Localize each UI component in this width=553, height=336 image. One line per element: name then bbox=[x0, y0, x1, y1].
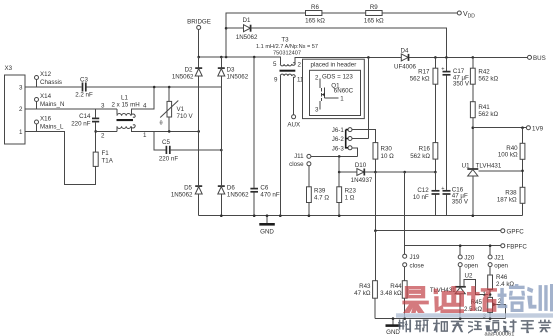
capacitor C14 bbox=[71, 109, 99, 131]
svg-text:D6: D6 bbox=[227, 184, 235, 191]
resistor R40 bbox=[498, 128, 525, 188]
terminal VDD bbox=[457, 11, 475, 19]
svg-text:Chassis: Chassis bbox=[40, 79, 62, 86]
svg-text:D5: D5 bbox=[184, 184, 192, 191]
svg-text:562 kΩ: 562 kΩ bbox=[478, 111, 498, 118]
svg-text:1N5062: 1N5062 bbox=[236, 34, 258, 41]
header box outer (placed in header) bbox=[303, 59, 365, 118]
svg-text:X12: X12 bbox=[40, 71, 52, 78]
resistor R39 bbox=[307, 166, 330, 216]
node D1 anode bbox=[225, 27, 228, 30]
resistor R46 bbox=[488, 266, 515, 297]
resistor R17 bbox=[410, 57, 438, 142]
diode D10 bbox=[339, 162, 435, 184]
svg-text:2: 2 bbox=[298, 61, 302, 68]
node C6 on bus bbox=[253, 56, 256, 59]
svg-text:562 kΩ: 562 kΩ bbox=[410, 153, 430, 160]
svg-text:D2: D2 bbox=[185, 66, 193, 73]
svg-text:GDS = 123: GDS = 123 bbox=[322, 74, 353, 81]
node R45 bottom on bus bbox=[489, 317, 492, 320]
resistor R30 bbox=[373, 143, 394, 172]
node U2 ref at R46/R45 junction bbox=[489, 293, 492, 296]
svg-text:X14: X14 bbox=[40, 93, 52, 100]
svg-text:D10: D10 bbox=[355, 162, 367, 169]
wire R30 vertical through gnd to GPFC bbox=[374, 172, 376, 231]
wire T3 pin11 to AUX bbox=[293, 77, 295, 115]
svg-text:J11: J11 bbox=[294, 153, 304, 160]
wire VDD riser bbox=[226, 13, 457, 57]
svg-text:1: 1 bbox=[340, 96, 344, 103]
svg-text:GND: GND bbox=[386, 329, 400, 336]
svg-text:R42: R42 bbox=[478, 68, 490, 75]
node U2 anode on bottom bus bbox=[459, 317, 462, 320]
wire pin1 row (Mains_L) bbox=[25, 131, 96, 184]
wire J11 top to J6-3 bbox=[311, 155, 357, 157]
inductor L1 (common mode choke) bbox=[101, 87, 199, 140]
node D6 on gnd bus bbox=[220, 214, 223, 217]
capacitor C17 bbox=[441, 57, 470, 190]
diode D6 bbox=[218, 150, 249, 216]
svg-text:165 kΩ: 165 kΩ bbox=[305, 17, 325, 24]
wire bottom bus bbox=[375, 318, 505, 320]
node D10 row left bbox=[338, 171, 341, 174]
op-amp U1 (TLVH431 shunt regulator) bbox=[462, 163, 523, 216]
diode D5 bbox=[171, 131, 202, 215]
svg-text:4: 4 bbox=[143, 103, 147, 110]
svg-text:2: 2 bbox=[315, 74, 319, 81]
svg-text:220 nF: 220 nF bbox=[159, 156, 178, 163]
svg-text:T3: T3 bbox=[281, 37, 289, 44]
svg-text:GPFC: GPFC bbox=[507, 229, 525, 236]
svg-text:R43: R43 bbox=[359, 283, 371, 290]
node U1 ref at R38 bbox=[521, 170, 524, 173]
svg-text:R6: R6 bbox=[311, 4, 319, 11]
wire pin3 row (chassis) bbox=[25, 86, 82, 88]
svg-text:C5: C5 bbox=[162, 139, 170, 146]
jumper J11 bbox=[289, 153, 311, 168]
svg-text:R41: R41 bbox=[478, 104, 490, 111]
svg-text:X3: X3 bbox=[5, 65, 13, 72]
svg-text:187 kΩ: 187 kΩ bbox=[497, 196, 517, 203]
svg-text:3: 3 bbox=[19, 85, 23, 92]
svg-text:R9: R9 bbox=[370, 4, 378, 11]
svg-text:10 Ω: 10 Ω bbox=[381, 153, 395, 160]
node R17 on bus bbox=[434, 56, 437, 59]
svg-text:open: open bbox=[494, 262, 508, 269]
terminal BUS bbox=[528, 55, 546, 62]
node GPFC corner bbox=[374, 229, 377, 232]
capacitor C16 bbox=[441, 186, 469, 216]
svg-text:J6-1: J6-1 bbox=[332, 127, 345, 134]
jumper J6-3 bbox=[332, 145, 358, 156]
node C6 on gnd bus bbox=[253, 214, 256, 217]
node C5 right at D3 vertical bbox=[220, 149, 223, 152]
terminal BRIDGE bbox=[187, 19, 211, 58]
node R39 on gnd bus bbox=[308, 214, 311, 217]
wire GPFC row bbox=[375, 230, 500, 232]
terminal GPFC bbox=[501, 229, 524, 236]
svg-text:aaa-000061: aaa-000061 bbox=[485, 332, 515, 336]
svg-text:2: 2 bbox=[101, 133, 105, 140]
node R42 on bus bbox=[472, 56, 475, 59]
node J21 on FBPFC row bbox=[489, 244, 492, 247]
node U1 anode on gnd bus bbox=[472, 214, 475, 217]
node R16 bottom on D10 row bbox=[434, 171, 437, 174]
svg-text:2.2 nF: 2.2 nF bbox=[75, 92, 93, 99]
transistor Q1 bbox=[315, 74, 354, 114]
resistor R38 bbox=[497, 187, 525, 215]
svg-text:1 Ω: 1 Ω bbox=[345, 195, 355, 202]
watermark dark text line bbox=[398, 320, 551, 334]
node R44 on bottom bus bbox=[403, 317, 406, 320]
svg-text:1N5062: 1N5062 bbox=[227, 74, 249, 81]
svg-text:D3: D3 bbox=[227, 66, 235, 73]
svg-text:D4: D4 bbox=[401, 47, 409, 54]
svg-text:GND: GND bbox=[260, 229, 274, 236]
resistor R43 bbox=[354, 231, 377, 319]
node R23 on gnd bus bbox=[338, 214, 341, 217]
node J6 riser on bus bbox=[367, 56, 370, 59]
wire pin2 row (Mains_N) bbox=[25, 108, 117, 110]
node T3 pin9 on gnd bus bbox=[279, 214, 282, 217]
wire J19 riser through gnd to FBPFC bbox=[404, 172, 406, 254]
svg-text:J21: J21 bbox=[494, 255, 505, 262]
svg-text:R44: R44 bbox=[390, 283, 402, 290]
svg-text:9: 9 bbox=[274, 77, 278, 84]
svg-text:J6-2: J6-2 bbox=[332, 136, 345, 143]
node V1 bottom bbox=[168, 130, 171, 133]
svg-text:5: 5 bbox=[273, 61, 277, 68]
node R30 bottom on D10 row bbox=[374, 171, 377, 174]
svg-text:U2: U2 bbox=[465, 272, 473, 279]
svg-text:10 nF: 10 nF bbox=[413, 194, 429, 201]
terminal AUX bbox=[287, 115, 300, 129]
svg-text:D1: D1 bbox=[243, 17, 251, 24]
capacitor C5 bbox=[154, 131, 221, 162]
svg-text:R17: R17 bbox=[418, 68, 430, 75]
svg-text:DD: DD bbox=[468, 13, 476, 19]
capacitor C3 bbox=[75, 77, 93, 99]
terminal 1V9 bbox=[526, 126, 543, 133]
svg-text:open: open bbox=[464, 262, 478, 269]
capacitor C12 bbox=[413, 172, 440, 216]
svg-text:350 V: 350 V bbox=[452, 199, 469, 206]
svg-text:1V9: 1V9 bbox=[532, 126, 544, 133]
svg-text:θ: θ bbox=[160, 121, 163, 127]
capacitor C6 bbox=[250, 57, 279, 216]
node J20 on FBPFC row bbox=[459, 244, 462, 247]
svg-text:J19: J19 bbox=[410, 254, 421, 261]
svg-text:FBPFC: FBPFC bbox=[507, 244, 528, 251]
potentiometer R45 bbox=[464, 291, 505, 320]
svg-text:1N5062: 1N5062 bbox=[227, 192, 249, 199]
node R40 top bbox=[521, 126, 524, 129]
svg-text:100 kΩ: 100 kΩ bbox=[498, 152, 518, 159]
svg-text:710 V: 710 V bbox=[177, 113, 194, 120]
svg-text:J20: J20 bbox=[464, 255, 475, 262]
transformer T3 bbox=[256, 37, 530, 216]
svg-text:+: + bbox=[441, 67, 444, 73]
node V1 top bbox=[168, 86, 171, 89]
svg-text:placed in header: placed in header bbox=[311, 61, 357, 68]
resistor R41 bbox=[470, 102, 498, 169]
wire branch down to D10 row bbox=[338, 156, 340, 186]
J6 header bar bbox=[346, 130, 349, 148]
svg-text:750312407: 750312407 bbox=[273, 51, 301, 57]
resistor R16 bbox=[410, 143, 438, 172]
node pin4 riser on chassis row bbox=[153, 86, 156, 89]
svg-text:2 x 15 mH: 2 x 15 mH bbox=[112, 102, 140, 109]
svg-text:165 kΩ: 165 kΩ bbox=[364, 17, 384, 24]
node VDD riser on bus bbox=[225, 56, 228, 59]
watermark band bbox=[396, 313, 553, 317]
fuse F1 bbox=[93, 131, 114, 166]
jumper J21 bbox=[488, 246, 508, 270]
svg-text:562 kΩ: 562 kΩ bbox=[410, 76, 430, 83]
svg-text:R16: R16 bbox=[419, 146, 431, 153]
svg-text:3: 3 bbox=[315, 107, 319, 114]
ground GND bbox=[259, 214, 275, 235]
svg-text:3: 3 bbox=[101, 103, 105, 110]
svg-text:L1: L1 bbox=[121, 95, 128, 102]
svg-text:BRIDGE: BRIDGE bbox=[187, 19, 211, 26]
diode D3 bbox=[218, 57, 249, 150]
svg-text:+: + bbox=[441, 186, 444, 192]
wire GND bus bbox=[199, 215, 523, 217]
svg-text:R39: R39 bbox=[314, 187, 326, 194]
svg-text:C14: C14 bbox=[79, 113, 91, 120]
main bus wire left segment bbox=[199, 57, 281, 64]
svg-text:F1: F1 bbox=[102, 150, 110, 157]
node 1V9 junction bbox=[472, 126, 475, 129]
watermark red char di bbox=[434, 286, 464, 313]
svg-text:1N5062: 1N5062 bbox=[171, 192, 193, 199]
terminal FBPFC bbox=[501, 244, 528, 251]
resistor R42 bbox=[470, 57, 498, 101]
svg-text:1.1 mH/2.7 A/Np:Ns = 57: 1.1 mH/2.7 A/Np:Ns = 57 bbox=[256, 44, 318, 50]
watermark blue char xun bbox=[527, 284, 553, 311]
resistor R44 bbox=[380, 266, 407, 318]
svg-text:220 nF: 220 nF bbox=[71, 121, 90, 128]
resistor R23 bbox=[337, 187, 357, 216]
svg-text:4.7 Ω: 4.7 Ω bbox=[314, 195, 329, 202]
svg-text:AUX: AUX bbox=[287, 121, 300, 128]
svg-text:C3: C3 bbox=[80, 77, 88, 84]
wire FBPFC row bbox=[405, 245, 501, 247]
svg-text:close: close bbox=[410, 263, 425, 270]
jumper J20 bbox=[458, 246, 478, 270]
svg-text:R46: R46 bbox=[496, 274, 508, 281]
svg-text:UF4006: UF4006 bbox=[394, 63, 417, 70]
svg-text:350 V: 350 V bbox=[453, 81, 470, 88]
svg-text:TLVH431: TLVH431 bbox=[476, 163, 502, 170]
diode D1 bbox=[226, 17, 446, 57]
svg-text:Mains_N: Mains_N bbox=[40, 101, 64, 108]
svg-text:X16: X16 bbox=[40, 116, 52, 123]
jumper J6-1 bbox=[332, 127, 376, 142]
node D3 riser on bus bbox=[220, 56, 223, 59]
svg-text:47 kΩ: 47 kΩ bbox=[354, 290, 371, 297]
svg-text:1: 1 bbox=[19, 129, 23, 136]
svg-text:3.48 kΩ: 3.48 kΩ bbox=[380, 290, 402, 297]
node C14/F1 junction bbox=[94, 130, 97, 133]
wire pin2 bottom row to L1 bbox=[96, 130, 117, 132]
node J11 line branch bbox=[338, 155, 341, 158]
svg-text:C6: C6 bbox=[260, 184, 268, 191]
svg-text:6N60C: 6N60C bbox=[334, 88, 354, 95]
watermark blue char pei bbox=[498, 284, 526, 312]
watermark red char tuo bbox=[467, 286, 497, 312]
watermark red char yi bbox=[402, 286, 428, 313]
wire 1V9 row bbox=[473, 127, 527, 129]
svg-text:close: close bbox=[289, 161, 304, 168]
resistor R6 bbox=[305, 4, 325, 25]
svg-text:T1A: T1A bbox=[102, 158, 114, 165]
diode D2 bbox=[172, 57, 202, 131]
svg-text:1: 1 bbox=[143, 132, 147, 139]
terminal X16 Mains_L bbox=[35, 116, 64, 132]
connector X3 bbox=[5, 65, 26, 144]
node C17 on bus bbox=[445, 56, 448, 59]
node pin1 row end at D2 vertical bbox=[197, 130, 200, 133]
svg-text:J6-3: J6-3 bbox=[332, 145, 345, 152]
header box inner bbox=[310, 70, 361, 115]
ground GND bottom bbox=[386, 317, 401, 336]
node bridge riser on bus bbox=[197, 56, 200, 59]
svg-text:Mains_L: Mains_L bbox=[40, 124, 64, 131]
varistor V1 bbox=[160, 87, 194, 131]
svg-text:BUS: BUS bbox=[533, 55, 546, 62]
resistor R9 bbox=[364, 4, 384, 25]
svg-text:470 nF: 470 nF bbox=[260, 192, 279, 199]
svg-text:R23: R23 bbox=[345, 187, 357, 194]
svg-text:562 kΩ: 562 kΩ bbox=[478, 76, 498, 83]
jumper J6-2 bbox=[332, 136, 369, 143]
svg-text:2: 2 bbox=[19, 106, 23, 113]
jumper J19 bbox=[403, 254, 425, 270]
node J19 riser on D10 row bbox=[403, 171, 406, 174]
wire chassis row right of C3 bbox=[87, 86, 222, 88]
svg-text:1N5062: 1N5062 bbox=[172, 74, 194, 81]
svg-text:R30: R30 bbox=[381, 146, 393, 153]
wire bus to J6-2 bbox=[367, 57, 369, 138]
terminal X12 Chassis bbox=[35, 71, 63, 87]
diode D4 bbox=[394, 47, 417, 70]
op-amp U2 (TLVH431 shunt regulator) bbox=[430, 266, 488, 318]
terminal X14 Mains_N bbox=[35, 93, 65, 109]
svg-text:1N4937: 1N4937 bbox=[351, 177, 373, 184]
